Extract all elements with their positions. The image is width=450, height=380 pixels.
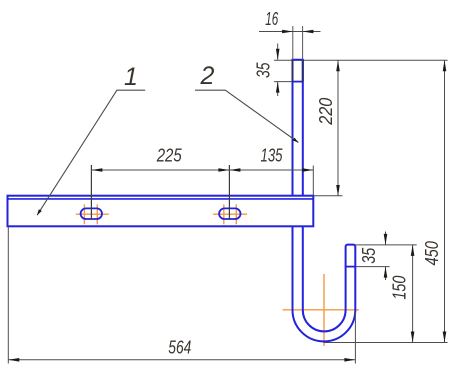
dim 225-135 extension line at bar right edge bbox=[312, 166, 314, 196]
dim 564 arrow right bbox=[344, 358, 355, 362]
svg-text:2: 2 bbox=[200, 62, 215, 90]
dim 35 (part2 top) dimension line lower segment bbox=[277, 82, 279, 96]
centerline slot 1 vertical right bbox=[96, 204, 98, 224]
dim 16 extension line right bbox=[302, 26, 304, 60]
dim 220 arrow down bbox=[336, 185, 340, 196]
slot hole 2 bbox=[219, 208, 240, 219]
dim 35 (hook) dimension line upper segment bbox=[385, 232, 387, 245]
dim 35 (part2 top) arrow up bbox=[276, 82, 280, 93]
dim 150 dimension line bbox=[412, 245, 414, 343]
dim 16 extension line left bbox=[292, 26, 294, 60]
dim 135 arrow right bbox=[302, 168, 313, 172]
dim 150 arrow down bbox=[411, 332, 415, 343]
centerline slot 1 vertical left bbox=[83, 204, 85, 224]
dim 16 arrow left bbox=[282, 30, 293, 34]
dim 564 extension line right bbox=[354, 312, 356, 364]
leader 2 line bbox=[195, 90, 298, 142]
dim 564 extension line left bbox=[7, 227, 9, 364]
part2 vertical strip above bar bbox=[293, 60, 303, 196]
centerline hook arc horizontal bbox=[283, 309, 360, 311]
centerline slot 2 horizontal bbox=[213, 213, 247, 215]
dim 16 dimension line bbox=[259, 31, 321, 33]
svg-text:450: 450 bbox=[421, 240, 442, 265]
part1 horizontal bar outline bbox=[8, 196, 314, 227]
slot hole 1 bbox=[81, 208, 102, 219]
part2 hook inner arc bbox=[303, 226, 346, 331]
svg-text:150: 150 bbox=[389, 275, 410, 300]
leader 1 arrowhead bbox=[37, 209, 42, 215]
part1 bar inner top edge line bbox=[8, 198, 314, 200]
dim 564 arrow left bbox=[8, 358, 19, 362]
leader 2 arrowhead bbox=[293, 138, 299, 143]
part2 bend line at top tab bbox=[293, 81, 303, 83]
centerline slot 1 horizontal bbox=[76, 213, 109, 215]
dim 225-135 extension line at slot1 bbox=[90, 165, 92, 220]
part2 tab edge dark overlay right bbox=[302, 60, 304, 82]
svg-text:35: 35 bbox=[252, 62, 273, 78]
part2 lower strip and J-hook bbox=[293, 226, 356, 341]
dim 564 dimension line bbox=[8, 359, 355, 361]
dim 220 arrow up bbox=[336, 60, 340, 71]
svg-text:220: 220 bbox=[315, 97, 336, 125]
dim 35 (part2 top) arrow down bbox=[276, 49, 280, 60]
dim 35 (part2 top) dimension line upper segment bbox=[277, 44, 279, 60]
dim 450 arrow up bbox=[443, 60, 447, 71]
dim 35 (hook) arrow up bbox=[384, 267, 388, 278]
dim 220 dimension line bbox=[337, 60, 339, 196]
part2 tab edge dark overlay left bbox=[292, 60, 294, 82]
extension line hook top (for 35 and 150 dims) bbox=[355, 244, 416, 246]
dim 150 arrow up bbox=[411, 245, 415, 256]
leader 1 line bbox=[37, 90, 145, 215]
svg-text:225: 225 bbox=[156, 145, 182, 166]
dim 225 arrow right (butterfly left half) bbox=[218, 168, 229, 172]
dim 35 (hook) arrow down bbox=[384, 234, 388, 245]
svg-text:35: 35 bbox=[358, 247, 379, 264]
extension line bar top right (for 220 dim bottom) bbox=[313, 195, 342, 197]
dim 16 arrow right bbox=[302, 30, 313, 34]
svg-text:16: 16 bbox=[265, 8, 278, 29]
extension line hook bottom (for 150 and 450 dims) bbox=[324, 342, 448, 344]
centerline hook arc vertical bbox=[323, 274, 325, 346]
dim 225-135 extension line at slot2 bbox=[228, 165, 230, 220]
dim 225 arrow left bbox=[91, 168, 102, 172]
dim 135 arrow left (butterfly right half) bbox=[229, 168, 240, 172]
dim 35 (hook) dimension line lower segment bbox=[385, 267, 387, 280]
svg-text:564: 564 bbox=[168, 337, 191, 358]
svg-text:1: 1 bbox=[124, 63, 138, 91]
part2 hook bend line bbox=[346, 266, 356, 268]
dim 450 arrow down bbox=[443, 332, 447, 343]
extension line hook bend (for 35 dim) bbox=[355, 266, 389, 268]
centerline slot 2 vertical left bbox=[223, 204, 225, 224]
extension line y60 top of part2 (for 35, 220, 450 dims) bbox=[274, 59, 448, 61]
extension line y81 bend of part2 bbox=[274, 81, 293, 83]
dim 225-135 shared dimension line bbox=[91, 169, 313, 171]
svg-text:135: 135 bbox=[261, 145, 284, 166]
centerline slot 2 vertical right bbox=[235, 204, 237, 224]
dim 450 dimension line bbox=[444, 60, 446, 342]
